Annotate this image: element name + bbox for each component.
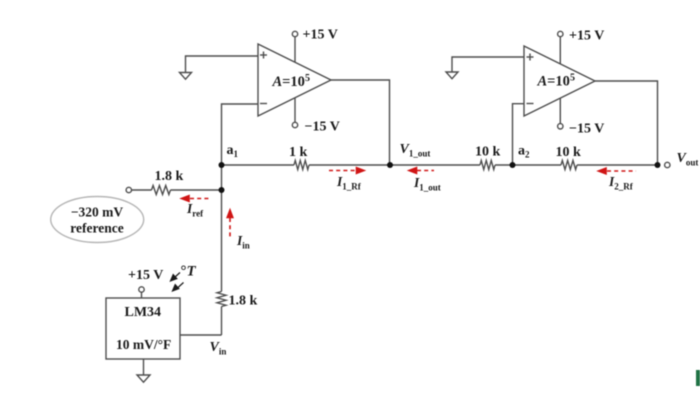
svg-text:1.8 k: 1.8 k: [229, 294, 258, 309]
svg-text:+15 V: +15 V: [303, 28, 338, 43]
svg-text:1.8 k: 1.8 k: [155, 169, 184, 184]
svg-text:I1_out: I1_out: [413, 175, 441, 193]
svg-text:Vout: Vout: [677, 151, 699, 168]
svg-text:+15 V: +15 V: [569, 29, 604, 44]
svg-text:a1: a1: [227, 143, 239, 159]
svg-text:°T: °T: [181, 264, 197, 280]
svg-text:10 mV/°F: 10 mV/°F: [116, 337, 171, 352]
svg-text:I2_Rf: I2_Rf: [608, 174, 634, 192]
svg-text:−320 mV: −320 mV: [71, 205, 124, 220]
svg-text:+15 V: +15 V: [128, 268, 163, 283]
svg-text:V1_out: V1_out: [400, 142, 431, 159]
svg-text:I1_Rf: I1_Rf: [336, 174, 362, 192]
svg-text:−15 V: −15 V: [305, 120, 340, 135]
svg-text:reference: reference: [70, 221, 123, 236]
svg-text:LM34: LM34: [125, 305, 162, 320]
svg-text:−15 V: −15 V: [569, 122, 604, 137]
svg-text:10 k: 10 k: [556, 145, 582, 160]
svg-text:A=105: A=105: [272, 73, 310, 90]
svg-text:Vin: Vin: [210, 340, 227, 357]
svg-text:10 k: 10 k: [475, 145, 501, 160]
svg-text:A=105: A=105: [537, 73, 575, 90]
svg-text:1 k: 1 k: [289, 145, 308, 160]
svg-text:a2: a2: [518, 144, 530, 160]
svg-text:Iin: Iin: [236, 233, 250, 251]
svg-text:Iref: Iref: [186, 201, 204, 219]
